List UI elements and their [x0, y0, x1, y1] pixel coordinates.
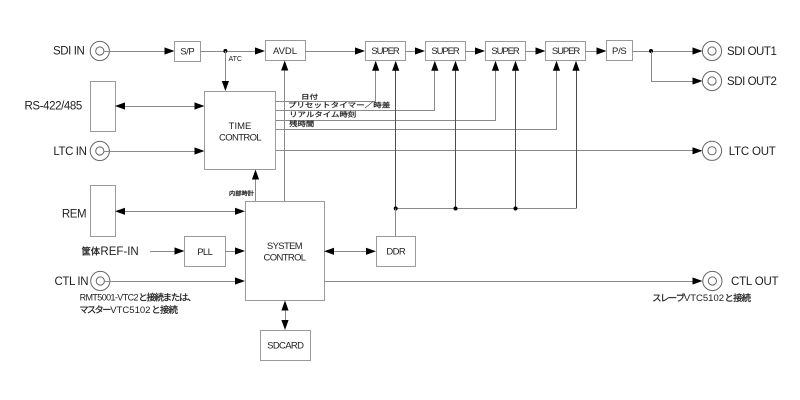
svg-text:SDI IN: SDI IN [53, 46, 85, 58]
svg-text:DDR: DDR [386, 247, 406, 258]
svg-text:P/S: P/S [612, 46, 626, 57]
svg-text:S/P: S/P [180, 46, 194, 57]
svg-text:SDCARD: SDCARD [267, 341, 304, 352]
svg-text:TIME: TIME [229, 121, 252, 132]
svg-text:SDI OUT1: SDI OUT1 [727, 46, 776, 58]
svg-text:ATC: ATC [229, 56, 242, 63]
svg-text:SYSTEM: SYSTEM [267, 241, 303, 252]
svg-text:CTL OUT: CTL OUT [731, 276, 779, 288]
svg-text:REM: REM [62, 209, 86, 221]
svg-text:REF-IN: REF-IN [100, 246, 138, 258]
svg-text:LTC OUT: LTC OUT [729, 146, 776, 158]
svg-text:SDI OUT2: SDI OUT2 [727, 76, 776, 88]
svg-text:SUPER: SUPER [552, 46, 580, 57]
svg-text:CONTROL: CONTROL [219, 133, 261, 144]
svg-text:SUPER: SUPER [431, 46, 459, 57]
svg-text:SUPER: SUPER [491, 46, 519, 57]
svg-text:RMT5001-VTC2: RMT5001-VTC2 [80, 293, 139, 303]
svg-text:CONTROL: CONTROL [264, 253, 306, 264]
svg-text:CTL IN: CTL IN [55, 276, 89, 288]
svg-text:PLL: PLL [197, 247, 212, 258]
svg-text:RS-422/485: RS-422/485 [25, 101, 82, 113]
svg-text:VTC5102: VTC5102 [110, 305, 150, 316]
svg-text:AVDL: AVDL [273, 46, 297, 57]
svg-text:SUPER: SUPER [371, 46, 399, 57]
svg-text:VTC5102: VTC5102 [684, 293, 724, 304]
svg-text:LTC IN: LTC IN [53, 146, 86, 158]
